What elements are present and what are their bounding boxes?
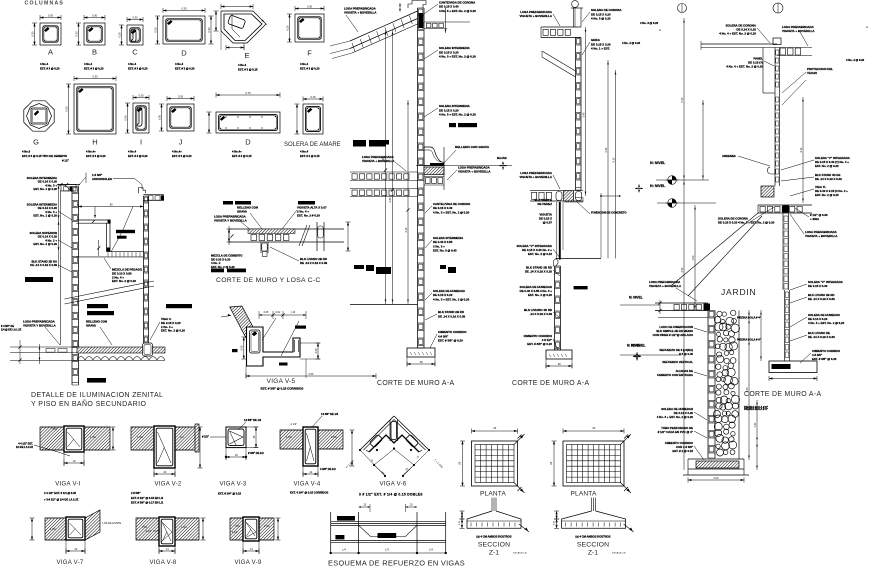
- svg-text:E: E: [244, 51, 249, 60]
- viga V-5 : hatched slope band: [230, 306, 259, 339]
- column section D: [163, 16, 205, 44]
- svg-text:EST. No. 2 @ 0.20: EST. No. 2 @ 0.20: [528, 293, 552, 297]
- svg-text:JARDIN: JARDIN: [721, 287, 757, 297]
- svg-text:0.30: 0.30: [157, 114, 161, 120]
- svg-text:4 No.4: 4 No.4: [128, 150, 137, 154]
- svg-text:D: D: [245, 138, 251, 147]
- wall3 : right lower wall footing: [769, 361, 817, 373]
- svg-text:75%: 75%: [142, 526, 148, 529]
- svg-text:VIGUETA + BOVEDILLA: VIGUETA + BOVEDILLA: [519, 175, 552, 179]
- svg-text:SOLERA DE AMARE: SOLERA DE AMARE: [284, 142, 341, 148]
- wall1 : hatched strip floor right: [424, 167, 444, 175]
- svg-text:VIGUETA Y BOVEDILLA: VIGUETA Y BOVEDILLA: [214, 218, 248, 222]
- svg-text:GRAVA: GRAVA: [86, 323, 97, 327]
- svg-text:4 No. 3 + EST. No. 2 @ 0.20: 4 No. 3 + EST. No. 2 @ 0.20: [433, 297, 470, 301]
- detalle: dim marks mid: [97, 246, 100, 249]
- svg-text:# 3 @ 0.40: # 3 @ 0.40: [679, 352, 693, 356]
- svg-text:CORTE DE MURO A-A: CORTE DE MURO A-A: [744, 391, 821, 398]
- svg-text:DE .14 X 0.19 X 0.39: DE .14 X 0.19 X 0.39: [808, 297, 835, 301]
- svg-text:N: NIVEL: N: NIVEL: [629, 296, 643, 300]
- viga V-5 : right dim: [317, 343, 319, 359]
- svg-text:F: F: [307, 49, 312, 58]
- svg-text:DE .14 X 0.19 X 0.20: DE .14 X 0.19 X 0.20: [525, 270, 553, 274]
- svg-text:0.30: 0.30: [74, 31, 78, 37]
- svg-text:4 4 1/2" EST.: 4 4 1/2" EST.: [18, 443, 33, 446]
- corte C-C : slab band: [229, 228, 344, 230]
- svg-text:# 1/2" CADA EN PVC @ 4": # 1/2" CADA EN PVC @ 4": [658, 430, 694, 434]
- detalle: left dim line: [58, 184, 60, 268]
- svg-text:4 No.4: 4 No.4: [84, 62, 93, 66]
- viga V-7 : dims: [31, 518, 33, 540]
- svg-text:4 No. 4 + EST. No. 2 @ 0.20: 4 No. 4 + EST. No. 2 @ 0.20: [726, 65, 763, 69]
- svg-text:4 3/8" DE 1/2: 4 3/8" DE 1/2: [320, 467, 336, 471]
- svg-text:5.10: 5.10: [681, 97, 684, 102]
- detalle: bovedilla wave under slab: [77, 357, 165, 361]
- svg-text:Y PISO EN BAÑO SECUNDARIO: Y PISO EN BAÑO SECUNDARIO: [31, 399, 146, 408]
- svg-text:EST. # 3 @ 0.20: EST. # 3 @ 0.20: [86, 154, 106, 158]
- corte C-C : right column: [316, 222, 318, 251]
- viga V-9 : hatched band: [230, 518, 243, 540]
- svg-text:# 1/2": # 1/2": [202, 435, 210, 439]
- svg-text:VIGUETA + BOVEDILLA: VIGUETA + BOVEDILLA: [344, 11, 377, 15]
- svg-text:4.40: 4.40: [389, 197, 392, 202]
- wall3 : right dim: [802, 97, 804, 203]
- wall2 : beam step right of slab: [565, 198, 584, 202]
- svg-text:EST. # 3/8" @ 0.20: EST. # 3/8" @ 0.20: [812, 357, 837, 361]
- svg-text:0.30: 0.30: [132, 16, 138, 20]
- seccion Z-1 (2): [591, 498, 593, 511]
- svg-text:ADICIONALES: ADICIONALES: [92, 177, 112, 181]
- svg-text:DE 0.15 X 0.20 4 No. 3 + EST.: DE 0.15 X 0.20 4 No. 3 + EST. No. 2 @ 0.…: [718, 220, 775, 224]
- wall3 : beam block at slab: [783, 205, 790, 213]
- svg-text:A: A: [866, 25, 868, 29]
- svg-text:4 No. 3 @ 0.20: 4 No. 3 @ 0.20: [591, 17, 611, 21]
- svg-text:4 No. 2 @ 0.20: 4 No. 2 @ 0.20: [846, 58, 865, 62]
- svg-text:4 No.4: 4 No.4: [300, 62, 309, 66]
- wall3 : wall between eave and slab: [774, 93, 776, 186]
- svg-text:0.30: 0.30: [207, 27, 211, 33]
- svg-text:1.0% DE AJUSTE: 1.0% DE AJUSTE: [102, 522, 122, 525]
- svg-text:BAJAR: BAJAR: [497, 156, 507, 160]
- wall2 : dim verticals: [585, 27, 587, 196]
- svg-text:.90: .90: [109, 203, 113, 207]
- svg-text:VIGUETA + BOVEDILLA: VIGUETA + BOVEDILLA: [362, 159, 395, 163]
- svg-text:1.50: 1.50: [692, 255, 695, 260]
- svg-text:# 3/8" DE 1/2: # 3/8" DE 1/2: [248, 451, 264, 455]
- wall2 : upper wall: [575, 38, 577, 191]
- svg-text:4 No. 3 + EST. No. 2 @ 0.20: 4 No. 3 + EST. No. 2 @ 0.20: [439, 113, 476, 117]
- svg-text:EST. # 2 @ 0.15: EST. # 2 @ 0.15: [300, 154, 320, 158]
- detalle: right ledge w/ bovedilla: [143, 193, 164, 195]
- svg-text:0.30: 0.30: [285, 25, 289, 31]
- svg-text:0.30: 0.30: [30, 31, 34, 37]
- svg-text:CON PINES # 1/2"@ AISLADO: CON PINES # 1/2"@ AISLADO: [653, 333, 694, 337]
- wall1 : left legend bars: [353, 142, 366, 147]
- wall1 : left floor slabs: [350, 171, 418, 173]
- wall3 : stones: [717, 311, 722, 316]
- svg-text:EXT. 4 1/4" @ 0.15 CORRIDOS: EXT. 4 1/4" @ 0.15 CORRIDOS: [290, 491, 328, 495]
- svg-text:EST. # 3/8" @ 0.20: EST. # 3/8" @ 0.20: [527, 342, 552, 346]
- svg-text:0.30: 0.30: [92, 14, 98, 18]
- svg-text:EST. # 3/8" @ 0.20: EST. # 3/8" @ 0.20: [438, 339, 463, 343]
- SOLERA DE AMARE section: [303, 104, 323, 134]
- wall1 : nivel line + cross right: [416, 165, 512, 167]
- wall1 : roof diagonal band: [350, 11, 418, 41]
- wall3 : right dim of stones: [748, 310, 750, 460]
- viga V-1 : hatched band: [40, 427, 64, 450]
- svg-text:DE .14 X 0.19 X 0.39: DE .14 X 0.19 X 0.39: [808, 335, 835, 339]
- svg-text:8 4 5/8" DE: 8 4 5/8" DE: [1, 325, 14, 328]
- svg-text:C: C: [132, 48, 138, 57]
- svg-text:0.15: 0.15: [310, 95, 316, 99]
- svg-text:4 No. 3 + EST. No. 2 @ 0.20: 4 No. 3 + EST. No. 2 @ 0.20: [433, 210, 470, 214]
- svg-text:EST. # 3 @ 0.20: EST. # 3 @ 0.20: [128, 67, 148, 71]
- svg-text:1.0%: 1.0%: [50, 528, 56, 531]
- wall3 : left dim 2: [702, 100, 704, 180]
- detalle: right wall footing block: [143, 343, 153, 356]
- svg-text:0.30: 0.30: [181, 7, 187, 11]
- esquema : bottom chord bars: [331, 540, 446, 542]
- svg-text:GRAVA: GRAVA: [237, 209, 248, 213]
- svg-text:VIGA V-8: VIGA V-8: [149, 560, 176, 566]
- svg-text:0.60: 0.60: [714, 477, 719, 480]
- svg-text:DE PEREZ: DE PEREZ: [538, 202, 553, 206]
- svg-text:SECCION: SECCION: [577, 542, 609, 549]
- svg-text:4 No.4: 4 No.4: [238, 63, 247, 67]
- detalle: right wall: [142, 196, 144, 343]
- svg-text:PIEDRA BOLA # 4": PIEDRA BOLA # 4": [737, 316, 762, 320]
- svg-text:VIGA V-4: VIGA V-4: [293, 482, 320, 488]
- svg-text:4 No.4+: 4 No.4+: [232, 150, 242, 154]
- column I inner S-bar: [137, 108, 142, 126]
- svg-text:75%: 75%: [52, 428, 58, 431]
- svg-text:2 # 5/8": 2 # 5/8": [131, 491, 141, 495]
- viga V-5 : beam profile: [247, 327, 301, 366]
- viga V-5 : bottom dim: [246, 375, 376, 377]
- wall3 : eave box: [762, 48, 764, 94]
- viga V-5 : left dim: [243, 337, 245, 359]
- svg-text:14 3/8" DE 1/4: 14 3/8" DE 1/4: [244, 418, 262, 422]
- detalle: interior black bars: [116, 230, 135, 233]
- viga V-6 : wing rebar rects: [369, 434, 382, 447]
- svg-text:EST. # 3/8" @ 0.17 EN L/2: EST. # 3/8" @ 0.17 EN L/2: [131, 501, 164, 505]
- svg-text:VIGA V-3: VIGA V-3: [219, 482, 246, 488]
- viga V-5 : black bars: [295, 326, 306, 329]
- wall2 : dim horizontal mid: [601, 195, 620, 197]
- svg-text:D: D: [181, 49, 187, 58]
- wall3 : stone footing: [688, 458, 744, 460]
- detalle: lower-left wall continues + bar: [87, 378, 106, 383]
- svg-text:0.05: 0.05: [264, 311, 269, 314]
- svg-text:VIGA V-I: VIGA V-I: [55, 482, 80, 488]
- svg-text:4 No. 3 @ 0.20: 4 No. 3 @ 0.20: [640, 21, 659, 25]
- viga V-1 : beam: [64, 426, 84, 452]
- wall2 : mid slab band: [530, 190, 583, 192]
- wall2 : window jamb heavy line: [559, 202, 561, 260]
- viga V-9 : beam: [243, 517, 259, 541]
- svg-text:EST. # 3 @ 0.20: EST. # 3 @ 0.20: [128, 154, 148, 158]
- svg-text:1.0%: 1.0%: [181, 526, 187, 529]
- svg-text:EST. No. 1 @ 0.20: EST. No. 1 @ 0.20: [33, 214, 57, 218]
- wall1 : right vertical leader: [445, 8, 447, 33]
- esquema : black bars: [337, 516, 355, 521]
- detalle iluminacion zenital : left wall: [71, 187, 73, 386]
- planta footing 2: [563, 441, 624, 486]
- svg-text:H: H: [92, 138, 97, 147]
- svg-text:PLANTA: PLANTA: [570, 491, 596, 498]
- wall1 : main block wall: [417, 8, 419, 348]
- svg-text:4 No. 3 + EST. No. 2 @ 0.20: 4 No. 3 + EST. No. 2 @ 0.20: [808, 321, 845, 325]
- svg-text:4 No.4: 4 No.4: [40, 62, 49, 66]
- svg-text:0.30: 0.30: [138, 94, 144, 98]
- svg-text:0.60: 0.60: [309, 373, 314, 376]
- svg-text:EST. # 3/8" @ 0.15 CORRIDOS: EST. # 3/8" @ 0.15 CORRIDOS: [261, 387, 304, 391]
- wall1 : right black bars mid: [449, 123, 456, 127]
- svg-text:3.10: 3.10: [612, 157, 615, 162]
- svg-text:4 No. 3 + EST. No. 2 @ 0.20: 4 No. 3 + EST. No. 2 @ 0.20: [657, 415, 694, 419]
- svg-text:4 4 1/2" EXT. 6 1/4 @ 0.40: 4 4 1/2" EXT. 6 1/4 @ 0.40: [44, 491, 76, 495]
- column section C: [127, 25, 143, 45]
- svg-text:Z-1: Z-1: [489, 550, 499, 557]
- svg-text:ESCALA 1:40: ESCALA 1:40: [513, 552, 527, 555]
- wall1 : ground line: [350, 304, 418, 306]
- svg-text:EST. No. 2 @ 0.20: EST. No. 2 @ 0.20: [33, 242, 57, 246]
- wall3 : roof slab top: [701, 43, 777, 45]
- svg-text:VIGUETA + BOVEDILLA: VIGUETA + BOVEDILLA: [782, 29, 815, 33]
- viga V-4 : beam deep: [303, 427, 318, 466]
- svg-text:G: G: [33, 138, 39, 147]
- svg-text:COLUMNAS: COLUMNAS: [25, 0, 65, 6]
- svg-text:DE .14 X 0.19 X 0.39: DE .14 X 0.19 X 0.39: [300, 261, 328, 265]
- wall1 : ogee curb relleno: [424, 147, 444, 166]
- esquema : bottom dim row: [331, 552, 446, 554]
- esquema : bent bar trapezoid: [331, 525, 446, 536]
- wall2 : roof slab: [541, 26, 581, 28]
- svg-text:4 No. 3 + EST. No. 2 @ 0.20: 4 No. 3 + EST. No. 2 @ 0.20: [439, 9, 476, 13]
- svg-text:EST. # 2 @ 0.15: EST. # 2 @ 0.15: [672, 449, 693, 453]
- wall3 : left long dim line: [683, 18, 685, 470]
- wall1 : left dim lines: [385, 30, 387, 304]
- detalle: window mullion: [106, 223, 108, 251]
- svg-text:VIGA V-6: VIGA V-6: [379, 482, 406, 488]
- svg-text:SECCION: SECCION: [478, 542, 510, 549]
- svg-text:CORTE DE MURO A-A: CORTE DE MURO A-A: [512, 380, 589, 387]
- svg-text:DETALLE DE ILUMINACION ZENITAL: DETALLE DE ILUMINACION ZENITAL: [31, 392, 163, 399]
- svg-text:4 No. 2 @ 0.20: 4 No. 2 @ 0.20: [622, 41, 641, 45]
- detalle: shelf beam: [76, 219, 110, 221]
- viga V-1 : dims + notes: [64, 462, 84, 464]
- legend bars top right of solera: [353, 140, 366, 145]
- svg-text:EST. # 3 @ 0.20: EST. # 3 @ 0.20: [40, 67, 60, 71]
- svg-text:VIGUETA + BOVEDILLA: VIGUETA + BOVEDILLA: [805, 234, 838, 238]
- svg-text:REFUERZO VERTICAL: REFUERZO VERTICAL: [662, 360, 693, 364]
- svg-text:3.40: 3.40: [681, 267, 684, 272]
- svg-text:PLANTA: PLANTA: [480, 491, 506, 498]
- wall2 : window sill: [556, 257, 601, 259]
- svg-text:VIGA V-7: VIGA V-7: [56, 560, 83, 566]
- svg-text:0.30: 0.30: [153, 27, 157, 33]
- svg-text:(a) 4 CM AMBOS ROSTROS: (a) 4 CM AMBOS ROSTROS: [476, 535, 511, 539]
- svg-text:CORTE DE MURO Y LOSA C-C: CORTE DE MURO Y LOSA C-C: [216, 277, 321, 284]
- svg-text:+ SISA: + SISA: [810, 217, 819, 221]
- wall3 : parapet wall: [774, 48, 776, 94]
- svg-text:DE .14 X 0.19 X 0.39: DE .14 X 0.19 X 0.39: [815, 177, 842, 181]
- svg-text:DE .14 X 0.19 X 0.39: DE .14 X 0.19 X 0.39: [30, 263, 57, 267]
- viga V-7 : hatched band w/ wing: [45, 518, 66, 540]
- svg-text:0.30: 0.30: [117, 32, 121, 38]
- viga V-6 : inner thick L edge: [369, 435, 419, 452]
- svg-text:0.30: 0.30: [307, 5, 313, 9]
- svg-text:4 No.6: 4 No.6: [22, 150, 31, 154]
- svg-text:EST. # 3 @ 0.20: EST. # 3 @ 0.20: [300, 67, 320, 71]
- svg-text:1.0%: 1.0%: [286, 436, 292, 439]
- detalle: leader diagonal: [111, 207, 133, 253]
- svg-text:1/4: 1/4: [180, 436, 184, 439]
- svg-text:FUNDICION DE CONCRETO: FUNDICION DE CONCRETO: [591, 211, 627, 215]
- detalle: sill lines: [107, 251, 144, 253]
- viga V-6 : center slot w/ rebar: [389, 420, 391, 441]
- svg-text:VIGA V-5: VIGA V-5: [267, 378, 296, 385]
- svg-text:4 1/2": 4 1/2": [291, 423, 298, 426]
- svg-text:EXT. # 1/2" @ 0.15 EN L/4: EXT. # 1/2" @ 0.15 EN L/4: [131, 496, 164, 500]
- svg-text:1.0%: 1.0%: [264, 525, 270, 528]
- viga V-7 : beam: [66, 517, 85, 540]
- svg-text:ANDENES: ANDENES: [722, 154, 736, 158]
- svg-text:EST. # 3 @ 0.15 TIPO DE CEMEN: EST. # 3 @ 0.15 TIPO DE CEMENTO: [22, 154, 67, 158]
- svg-text:EST. No. 2 @ 0.20: EST. No. 2 @ 0.20: [815, 164, 839, 168]
- corte C-C : wall below slab: [260, 242, 262, 253]
- wall2 : footing: [546, 350, 572, 359]
- corte C-C : dims: [228, 229, 230, 242]
- wall3 : slope diagonals to jardin: [672, 213, 758, 285]
- svg-text:3.40: 3.40: [582, 112, 585, 117]
- viga V-8 : hatched band: [136, 518, 159, 540]
- svg-text:0.30: 0.30: [48, 14, 54, 18]
- svg-text:4 1/2": 4 1/2": [232, 531, 238, 534]
- detalle: left wall top cap: [61, 185, 76, 192]
- viga V-4 : hatched band: [280, 430, 303, 449]
- detalle: floor left dims: [39, 344, 41, 364]
- svg-text:3.10: 3.10: [800, 147, 803, 152]
- svg-text:EST. No. 2 @ 0.15: EST. No. 2 @ 0.15: [528, 252, 552, 256]
- column section E corner: [221, 11, 266, 43]
- svg-text:DE .14 X 0.19 X 0.39: DE .14 X 0.19 X 0.39: [438, 314, 466, 318]
- viga V-3 : small hatch + beam: [195, 424, 199, 452]
- svg-text:TECHO: TECHO: [807, 71, 818, 75]
- svg-text:3.10: 3.10: [405, 227, 408, 232]
- svg-text:+ 3 # 1/2" @ 1/4 DE LA LUZ: + 3 # 1/2" @ 1/4 DE LA LUZ: [44, 498, 79, 502]
- svg-text:EST. No. 1 @ 0.20: EST. No. 1 @ 0.20: [33, 187, 57, 191]
- wall3 : gutter hook: [767, 167, 775, 174]
- svg-text:VIGA V-2: VIGA V-2: [154, 482, 181, 488]
- seccion Z-1 (1): [491, 498, 493, 511]
- svg-text:I: I: [140, 138, 142, 147]
- svg-text:PIEDRA BOLA # 6": PIEDRA BOLA # 6": [744, 407, 769, 411]
- wall3 : wall right below slab: [782, 213, 784, 290]
- column section G octagon: [24, 101, 54, 131]
- svg-text:VIGUETA + BOVEDILLA: VIGUETA + BOVEDILLA: [519, 14, 552, 18]
- wall1 : small top dim: [399, 3, 401, 12]
- svg-text:1/4 @ DE LA LUZ: 1/4 @ DE LA LUZ: [1, 329, 22, 332]
- detalle: left legend bar: [25, 277, 53, 282]
- svg-text:N: NIVEL: N: NIVEL: [650, 184, 666, 188]
- viga V-6 : rotated corner beam chevron: [360, 416, 394, 450]
- svg-text:B: B: [92, 48, 97, 57]
- svg-text:4 No.4: 4 No.4: [128, 62, 137, 66]
- svg-text:0.25: 0.25: [315, 348, 318, 353]
- wall3 : left dim 3: [694, 205, 696, 310]
- viga V-6 : lattice + dots: [360, 450, 385, 476]
- svg-text:EST. No. 2 @ 0.20: EST. No. 2 @ 0.20: [161, 329, 185, 333]
- svg-text:4 No. 1 + EST.: 4 No. 1 + EST.: [591, 47, 610, 51]
- svg-text:4 No.4+: 4 No.4+: [86, 150, 96, 154]
- corte C-C : legend bars: [223, 201, 233, 205]
- svg-text:0.5%: 0.5%: [331, 436, 337, 439]
- svg-text:N: NIVEL: N: NIVEL: [650, 161, 666, 165]
- wall3 : right lower wall: [784, 290, 786, 361]
- svg-text:4 1/2": 4 1/2": [146, 530, 153, 533]
- corte C-C : break marks: [299, 225, 307, 246]
- svg-text:4 No.4+: 4 No.4+: [172, 150, 182, 154]
- svg-text:0.30: 0.30: [178, 95, 184, 99]
- column section A: [40, 23, 61, 45]
- column section C inner S-bar: [131, 30, 136, 42]
- svg-text:4 No.4: 4 No.4: [175, 62, 184, 66]
- wall2 : skylight diagonals: [542, 51, 576, 71]
- svg-text:(.10: (.10: [291, 311, 296, 314]
- wall3 : grid bubbles: [678, 4, 687, 13]
- svg-text:EST. No. 2 # 0.20: EST. No. 2 # 0.20: [297, 213, 320, 217]
- esquema : vertical edges: [330, 512, 332, 553]
- detalle: right wall top cap: [139, 188, 146, 194]
- svg-text:0.30: 0.30: [64, 106, 68, 112]
- svg-text:.14 X 0.19 X 0.39: .14 X 0.19 X 0.39: [530, 312, 553, 316]
- svg-text:ESCALA 1:40: ESCALA 1:40: [612, 552, 626, 555]
- wall3 : hatched solera + mid slab: [761, 186, 774, 197]
- svg-text:ESQUEMA DE REFUERZO EN VIGAS: ESQUEMA DE REFUERZO EN VIGAS: [328, 559, 465, 566]
- planta footing 1: [472, 441, 518, 486]
- svg-text:1/4 DE LA LUZ: 1/4 DE LA LUZ: [16, 446, 34, 449]
- svg-text:EST. No. 2 @ 0.20: EST. No. 2 @ 0.20: [815, 193, 839, 197]
- svg-text:VIGUETA + BOVEDILLA: VIGUETA + BOVEDILLA: [458, 170, 491, 174]
- svg-text:4 No. 4 + EST. No. 2 @ 0.20: 4 No. 4 + EST. No. 2 @ 0.20: [719, 32, 756, 36]
- column section J: [167, 104, 194, 131]
- column section F: [295, 14, 324, 42]
- svg-text:RELLENO CON GRAVA: RELLENO CON GRAVA: [455, 145, 490, 149]
- svg-text:VIGUETA + BOVEDILLA: VIGUETA + BOVEDILLA: [649, 284, 681, 288]
- svg-text:0.40: 0.40: [755, 422, 757, 427]
- svg-text:CORTE DE MURO A-A: CORTE DE MURO A-A: [377, 380, 454, 387]
- wall1 : top cap: [408, 1, 426, 9]
- wall2 : lower wall: [554, 266, 556, 350]
- svg-text:1.0%: 1.0%: [137, 436, 143, 439]
- svg-text:# 12": # 12": [62, 159, 70, 163]
- svg-text:EST. No. 3 @ 0.40: EST. No. 3 @ 0.40: [433, 249, 457, 253]
- wall1 : ledger bovedilla right: [424, 21, 470, 23]
- wall2 : parapet top: [573, 8, 575, 27]
- svg-text:0.75: 0.75: [245, 91, 251, 95]
- wall2 : nivel cross right: [635, 187, 643, 189]
- svg-text:14 3/8" DE 1/4: 14 3/8" DE 1/4: [321, 412, 339, 416]
- svg-text:EST. # 3 @ 0.15: EST. # 3 @ 0.15: [232, 154, 252, 158]
- detalle: center black bars: [87, 304, 108, 308]
- svg-text:Z-1: Z-1: [588, 550, 598, 557]
- svg-text:0.30: 0.30: [92, 75, 98, 79]
- svg-text:4 No.4: 4 No.4: [300, 150, 309, 154]
- wall2 : grid bubble: [572, 1, 579, 8]
- svg-text:EST. # 3 @ 0.20: EST. # 3 @ 0.20: [175, 67, 195, 71]
- svg-text:0.40: 0.40: [241, 345, 244, 350]
